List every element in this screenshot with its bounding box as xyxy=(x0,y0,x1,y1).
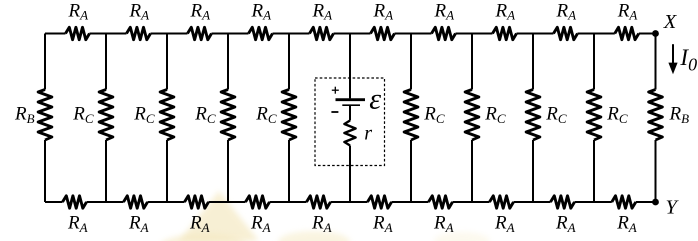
wire vertical lower (R_C (#7)) xyxy=(532,140,534,202)
node X (dot) xyxy=(652,30,659,37)
resistor R_A (bottom #9) xyxy=(551,196,575,208)
resistor R_A (bottom #3) xyxy=(185,196,209,208)
resistor R_A (top #2) xyxy=(127,27,151,39)
wire top segment 8 right lead xyxy=(517,33,534,35)
resistor R_A (top #9) xyxy=(554,27,578,39)
wire vertical lower (R_C (#1)) xyxy=(105,140,107,202)
resistor R_C (#6) xyxy=(465,90,479,141)
wire top segment 10 left lead xyxy=(594,33,615,35)
wire top segment 3 left lead xyxy=(167,33,188,35)
resistor R_A (bottom #2) xyxy=(124,196,148,208)
resistor R_A (top #3) xyxy=(188,27,212,39)
svg-text:ε: ε xyxy=(369,82,381,115)
wire top segment 9 left lead xyxy=(533,33,554,35)
wire bottom segment 2 left lead xyxy=(106,201,124,203)
resistor R_A (top #6) xyxy=(371,27,395,39)
wire vertical upper (R_C (#3)) xyxy=(227,34,229,90)
svg-text:X: X xyxy=(663,11,678,33)
resistor R_A (bottom #6) xyxy=(368,196,392,208)
wire vertical upper (R_C (#7)) xyxy=(532,34,534,90)
wire bottom segment 8 right lead xyxy=(514,201,534,203)
wire bottom segment 6 left lead xyxy=(350,201,368,203)
wire top segment 1 left lead xyxy=(45,33,66,35)
wire top segment 6 right lead xyxy=(395,33,412,35)
resistor R_A (bottom #8) xyxy=(490,196,514,208)
wire bottom segment 3 right lead xyxy=(209,201,229,203)
resistor R_A (top #1) xyxy=(66,27,90,39)
wire bottom segment 7 left lead xyxy=(411,201,429,203)
wire bottom segment 5 right lead xyxy=(331,201,351,203)
wire between negative plate and r xyxy=(349,106,351,121)
wire battery branch top xyxy=(349,34,351,99)
resistor R_A (bottom #10) xyxy=(612,196,636,208)
wire bottom segment 10 left lead xyxy=(594,201,612,203)
resistor R_A (bottom #7) xyxy=(429,196,453,208)
wire vertical upper (R_C (#8)) xyxy=(593,34,595,90)
current I0 arrow xyxy=(668,44,677,74)
watermark blob left xyxy=(160,234,248,241)
wire top segment 5 left lead xyxy=(289,33,310,35)
wire bottom segment 4 left lead xyxy=(228,201,246,203)
resistor r (internal resistance) xyxy=(344,121,355,146)
resistor R_A (top #5) xyxy=(310,27,334,39)
wire vertical upper (R_C (#4)) xyxy=(288,34,290,90)
watermark wedge xyxy=(179,191,259,241)
wire vertical upper (R_C (#6)) xyxy=(471,34,473,90)
wire bottom segment 1 left lead xyxy=(45,201,63,203)
wire vertical upper (R_B (right)) xyxy=(655,34,657,90)
wire top segment 4 right lead xyxy=(273,33,290,35)
resistor R_C (#4) xyxy=(282,90,296,141)
wire vertical lower (R_B (left)) xyxy=(44,140,46,202)
wire top segment 1 right lead xyxy=(90,33,107,35)
wire bottom segment 7 right lead xyxy=(453,201,473,203)
wire bottom segment 5 left lead xyxy=(289,201,307,203)
wire vertical lower (R_C (#8)) xyxy=(593,140,595,202)
wire top segment 10 right lead xyxy=(639,33,656,35)
dashed box around source xyxy=(315,78,385,166)
wire vertical upper (R_B (left)) xyxy=(44,34,46,90)
wire bottom segment 6 right lead xyxy=(392,201,412,203)
resistor R_C (#2) xyxy=(160,90,174,141)
resistor R_A (top #7) xyxy=(432,27,456,39)
svg-text:r: r xyxy=(364,123,372,145)
wire bottom segment 2 right lead xyxy=(148,201,168,203)
resistor R_C (#5) xyxy=(404,90,418,141)
watermark blob right xyxy=(434,232,490,241)
wire top segment 6 left lead xyxy=(350,33,371,35)
wire top segment 4 left lead xyxy=(228,33,249,35)
plus sign xyxy=(332,87,339,94)
wire bottom segment 9 left lead xyxy=(533,201,551,203)
wire vertical upper (R_C (#1)) xyxy=(105,34,107,90)
resistor R_A (bottom #4) xyxy=(246,196,270,208)
wire top segment 2 right lead xyxy=(151,33,168,35)
resistor R_C (#8) xyxy=(587,90,601,141)
wire vertical lower (R_C (#3)) xyxy=(227,140,229,202)
resistor R_A (top #8) xyxy=(493,27,517,39)
wire battery branch bottom xyxy=(349,146,351,203)
wire bottom segment 4 right lead xyxy=(270,201,290,203)
wire bottom segment 3 left lead xyxy=(167,201,185,203)
wire bottom segment 9 right lead xyxy=(575,201,595,203)
wire vertical upper (R_C (#5)) xyxy=(410,34,412,90)
wire top segment 2 left lead xyxy=(106,33,127,35)
wire vertical lower (R_C (#5)) xyxy=(410,140,412,202)
wire top segment 7 right lead xyxy=(456,33,473,35)
resistor R_C (#7) xyxy=(526,90,540,141)
wire bottom segment 1 right lead xyxy=(87,201,107,203)
resistor R_A (top #4) xyxy=(249,27,273,39)
wire vertical lower (R_B (right)) xyxy=(655,140,657,202)
battery cell: positive plate (long) xyxy=(336,98,366,101)
minus sign xyxy=(331,111,338,113)
resistor R_A (top #10) xyxy=(615,27,639,39)
resistor R_B (right) xyxy=(649,90,663,141)
wire top segment 7 left lead xyxy=(411,33,432,35)
wire top segment 3 right lead xyxy=(212,33,229,35)
resistor R_A (bottom #1) xyxy=(63,196,87,208)
wire bottom segment 10 right lead xyxy=(636,201,656,203)
wire top segment 9 right lead xyxy=(578,33,595,35)
resistor R_C (#3) xyxy=(221,90,235,141)
wire vertical lower (R_C (#2)) xyxy=(166,140,168,202)
wire top segment 5 right lead xyxy=(334,33,351,35)
wire top segment 8 left lead xyxy=(472,33,493,35)
wire vertical upper (R_C (#2)) xyxy=(166,34,168,90)
wire vertical lower (R_C (#4)) xyxy=(288,140,290,202)
wire vertical lower (R_C (#6)) xyxy=(471,140,473,202)
resistor R_C (#1) xyxy=(99,90,113,141)
wire bottom segment 8 left lead xyxy=(472,201,490,203)
resistor R_A (bottom #5) xyxy=(307,196,331,208)
watermark blob middle xyxy=(278,231,350,241)
battery cell: negative plate (short) xyxy=(342,104,360,106)
node Y (dot) xyxy=(652,199,659,206)
resistor R_B (left) xyxy=(38,90,52,141)
